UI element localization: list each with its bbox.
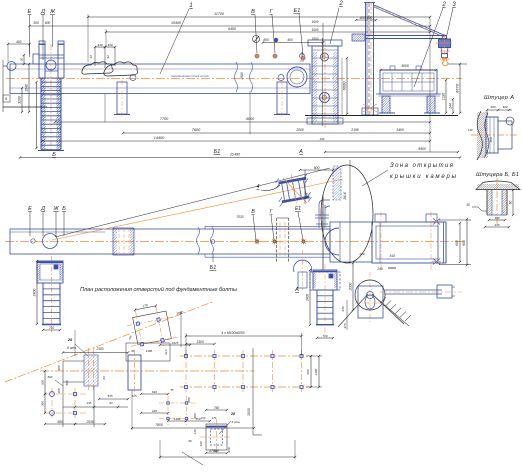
svg-text:5 отв.: 5 отв. [231, 420, 240, 424]
svg-text:140: 140 [468, 128, 473, 132]
svg-text:330: 330 [199, 441, 203, 446]
svg-text:28: 28 [67, 337, 73, 342]
svg-text:400: 400 [57, 365, 61, 370]
svg-text:130: 130 [193, 429, 197, 434]
svg-text:380: 380 [489, 137, 493, 142]
svg-text:60: 60 [509, 201, 513, 205]
svg-text:Е: Е [28, 206, 32, 212]
svg-text:475: 475 [343, 323, 347, 328]
svg-text:3280: 3280 [18, 96, 22, 104]
svg-text:2000: 2000 [295, 128, 304, 132]
svg-text:15400: 15400 [171, 21, 181, 25]
svg-text:360: 360 [57, 388, 61, 393]
svg-text:360: 360 [41, 401, 45, 406]
svg-text:3000: 3000 [401, 64, 409, 68]
svg-text:150: 150 [201, 416, 206, 420]
svg-text:1600: 1600 [311, 20, 318, 24]
svg-text:400: 400 [502, 105, 507, 109]
svg-text:240: 240 [151, 409, 157, 413]
svg-text:1500: 1500 [311, 37, 318, 41]
svg-text:1200: 1200 [314, 368, 318, 375]
svg-text:3400: 3400 [396, 128, 404, 132]
svg-text:6400: 6400 [228, 27, 236, 31]
svg-text:2900: 2900 [240, 72, 244, 80]
svg-text:Ж: Ж [52, 206, 59, 212]
svg-text:11700: 11700 [214, 12, 224, 16]
svg-text:2535: 2535 [85, 420, 93, 424]
svg-text:Д: Д [40, 206, 45, 212]
svg-text:1500: 1500 [197, 340, 204, 344]
svg-text:1025: 1025 [172, 341, 179, 345]
svg-text:Б1: Б1 [210, 265, 217, 271]
svg-text:400 400: 400 400 [360, 16, 373, 20]
svg-text:345: 345 [494, 223, 499, 227]
svg-text:Ж: Ж [49, 9, 56, 15]
svg-text:608: 608 [455, 240, 459, 246]
svg-text:4 х М100х6000: 4 х М100х6000 [221, 331, 244, 335]
svg-text:174: 174 [212, 416, 217, 420]
svg-text:63: 63 [102, 376, 106, 380]
svg-text:Е1: Е1 [294, 8, 301, 14]
svg-text:2400: 2400 [33, 289, 37, 298]
svg-text:240: 240 [376, 267, 383, 271]
svg-text:600: 600 [45, 21, 51, 25]
svg-text:Б1: Б1 [214, 149, 221, 155]
svg-text:Штуцера Б, Б1: Штуцера Б, Б1 [476, 172, 519, 178]
svg-text:710: 710 [49, 326, 55, 330]
svg-text:30: 30 [466, 203, 470, 207]
svg-text:7800: 7800 [155, 423, 163, 427]
svg-text:2190: 2190 [350, 128, 359, 132]
svg-text:600: 600 [462, 240, 466, 246]
svg-text:400: 400 [287, 38, 293, 42]
svg-text:930: 930 [227, 447, 231, 452]
svg-text:34: 34 [106, 55, 110, 59]
svg-text:2000: 2000 [349, 283, 353, 292]
svg-text:4: 4 [256, 184, 259, 190]
svg-text:28: 28 [230, 412, 236, 416]
svg-text:4000: 4000 [246, 117, 255, 121]
svg-text:600: 600 [48, 375, 53, 379]
svg-text:передвижная точка опоры: передвижная точка опоры [171, 74, 209, 78]
svg-text:2400: 2400 [306, 294, 310, 302]
svg-text:8 отв.: 8 отв. [67, 346, 77, 350]
svg-text:500: 500 [41, 380, 45, 385]
svg-text:1306: 1306 [174, 417, 181, 421]
svg-text:34: 34 [89, 55, 93, 59]
svg-text:760: 760 [214, 406, 220, 410]
svg-text:6000: 6000 [342, 81, 347, 91]
svg-text:1640: 1640 [25, 84, 29, 92]
svg-text:430: 430 [97, 43, 102, 47]
svg-text:600: 600 [314, 166, 320, 170]
svg-text:План расположения отверстий по: План расположения отверстий под фундамен… [80, 286, 237, 293]
svg-text:20 480: 20 480 [229, 153, 240, 157]
svg-text:5900: 5900 [418, 147, 426, 151]
svg-text:1320: 1320 [442, 93, 446, 101]
svg-text:600: 600 [306, 369, 310, 374]
svg-text:7030: 7030 [236, 215, 243, 219]
svg-text:20: 20 [20, 58, 24, 63]
svg-text:Д: Д [40, 9, 45, 15]
svg-text:244: 244 [449, 103, 453, 110]
svg-text:Б: Б [62, 206, 66, 212]
svg-text:Е1: Е1 [295, 206, 301, 212]
svg-text:930: 930 [341, 306, 345, 311]
svg-text:840: 840 [214, 449, 220, 453]
svg-text:580: 580 [57, 420, 63, 424]
svg-text:400: 400 [490, 105, 495, 109]
svg-text:6670: 6670 [455, 83, 460, 93]
svg-text:300: 300 [33, 21, 39, 25]
svg-text:345: 345 [87, 401, 92, 405]
svg-text:400: 400 [16, 40, 22, 44]
svg-text:450: 450 [107, 43, 112, 47]
svg-text:Штуцер А: Штуцер А [484, 95, 514, 101]
svg-text:А: А [294, 287, 299, 293]
svg-text:В: В [251, 9, 255, 15]
svg-text:1000: 1000 [311, 28, 318, 32]
svg-text:Зона открытия: Зона открытия [390, 163, 454, 169]
svg-text:1: 1 [189, 3, 192, 9]
svg-text:А: А [298, 149, 303, 155]
svg-text:240: 240 [358, 252, 364, 256]
svg-text:Е: Е [28, 9, 32, 15]
svg-text:7700: 7700 [160, 117, 169, 121]
svg-text:545: 545 [107, 394, 112, 398]
svg-text:500: 500 [65, 380, 69, 385]
svg-text:14400: 14400 [154, 136, 165, 140]
svg-text:60: 60 [188, 439, 192, 443]
svg-text:2: 2 [338, 1, 343, 7]
svg-text:390: 390 [494, 216, 499, 220]
svg-text:крышки камеры: крышки камеры [390, 174, 457, 180]
svg-text:7600: 7600 [192, 128, 201, 132]
svg-text:2816: 2816 [343, 192, 347, 201]
svg-text:2000: 2000 [247, 408, 251, 417]
svg-text:2150: 2150 [95, 347, 103, 351]
svg-text:190: 190 [320, 137, 325, 141]
svg-text:1368: 1368 [146, 349, 153, 353]
svg-text:62,6: 62,6 [164, 349, 168, 355]
svg-text:55: 55 [170, 388, 174, 392]
svg-text:64: 64 [109, 401, 113, 405]
svg-text:344: 344 [389, 254, 395, 258]
svg-text:515: 515 [131, 394, 136, 398]
svg-text:2: 2 [441, 2, 446, 8]
svg-text:298: 298 [305, 192, 309, 198]
svg-text:Б: Б [52, 152, 56, 158]
svg-text:710: 710 [322, 334, 327, 338]
svg-text:610: 610 [152, 390, 157, 394]
